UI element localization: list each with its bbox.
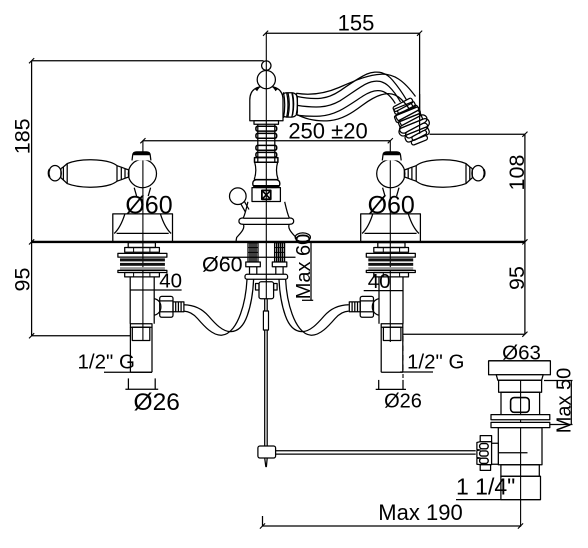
- spout collar: [281, 93, 297, 117]
- right hose (mirrored): [279, 279, 349, 335]
- spout tube: [296, 74, 415, 121]
- dimension 155: [263, 11, 422, 134]
- svg-text:Ø26: Ø26: [134, 389, 180, 416]
- label Ø60 left valve: [125, 192, 172, 220]
- label 1/2" G left: [78, 351, 153, 374]
- svg-text:Max 50: Max 50: [554, 368, 576, 434]
- svg-text:95: 95: [10, 268, 34, 292]
- spout finial balls: [257, 61, 275, 124]
- column waist: [254, 162, 278, 179]
- valve shank stack: [118, 243, 167, 277]
- drain neck: [499, 380, 542, 414]
- svg-text:250 ±20: 250 ±20: [288, 118, 367, 143]
- spout outlet tip: [390, 99, 435, 149]
- svg-text:Max 190: Max 190: [378, 500, 462, 525]
- center mounting studs: [246, 243, 287, 274]
- label 1 1/4": [456, 474, 515, 500]
- right valve assembly (mirrored): [349, 152, 484, 372]
- svg-text:1/2" G: 1/2" G: [407, 351, 464, 374]
- label Ø60 center: [202, 253, 243, 277]
- left valve assembly: [49, 152, 184, 372]
- dimension 95 right: [403, 242, 529, 337]
- dimension Max 190: [260, 500, 523, 529]
- drain overflow hole: [511, 398, 530, 413]
- svg-text:1/2" G: 1/2" G: [78, 351, 135, 374]
- column centerline: [265, 33, 267, 299]
- dimension Max 50: [544, 368, 576, 434]
- pop-up knob: [230, 188, 250, 212]
- spout tube: [297, 72, 406, 116]
- svg-text:108: 108: [505, 155, 529, 191]
- svg-text:Ø60: Ø60: [202, 253, 243, 277]
- dimension Max 60: [222, 234, 315, 301]
- left valve centerline: [142, 141, 144, 341]
- valve escutcheon: [113, 214, 173, 242]
- right valve centerline: [389, 141, 391, 342]
- svg-text:185: 185: [10, 118, 34, 154]
- collar box with cross detail: [252, 188, 280, 202]
- label Ø60 right valve: [368, 192, 415, 220]
- label 1/2" G right: [400, 351, 464, 374]
- dimension 95 left: [10, 242, 130, 339]
- column flare ring: [253, 180, 280, 188]
- column neck with rings: [255, 124, 278, 162]
- svg-text:95: 95: [505, 266, 529, 290]
- dimension 108: [430, 132, 529, 245]
- handle barrel: [67, 160, 129, 188]
- label 40 right with leader: [364, 270, 403, 293]
- dimension Ø63: [489, 341, 551, 366]
- valve hose fitting: [154, 296, 184, 317]
- center hose block: [256, 282, 278, 299]
- drain flange: [489, 361, 551, 380]
- handle tip ball: [49, 164, 68, 184]
- drain washers: [491, 415, 550, 428]
- left hose: [184, 279, 254, 335]
- valve body tube: [130, 277, 154, 372]
- label 40 left with leader: [130, 269, 182, 292]
- dimension Ø26 left: [125, 378, 179, 416]
- svg-text:Ø26: Ø26: [384, 391, 422, 413]
- dimension 185: [10, 58, 263, 244]
- pop-up rod clevis: [258, 446, 276, 467]
- drain centerline: [520, 361, 522, 527]
- column bell base: [236, 202, 296, 242]
- svg-text:1 1/4": 1 1/4": [456, 474, 515, 500]
- svg-text:Max 60: Max 60: [293, 234, 315, 300]
- deck side knob ellipse: [295, 233, 310, 242]
- pop-up rod: [263, 299, 268, 446]
- center mounting plate: [245, 274, 288, 279]
- dimension Ø26 right: [376, 336, 422, 413]
- horizontal drain rod: [276, 451, 476, 454]
- drain knurled nut: [477, 436, 498, 471]
- deck line: [32, 241, 525, 243]
- svg-text:Ø60: Ø60: [125, 192, 172, 220]
- spout outlet tip: [389, 95, 434, 144]
- svg-text:Ø60: Ø60: [368, 192, 415, 220]
- handle pivot ball: [128, 152, 156, 196]
- dimension 250 +-20: [140, 118, 393, 143]
- label 1 1/4" leader line: [456, 499, 541, 501]
- spout tee body: [250, 86, 283, 124]
- drain body: [498, 428, 542, 500]
- spout collar ribs: [284, 92, 298, 118]
- svg-text:155: 155: [338, 11, 375, 36]
- dimension 155 right extension over tip: [419, 94, 421, 134]
